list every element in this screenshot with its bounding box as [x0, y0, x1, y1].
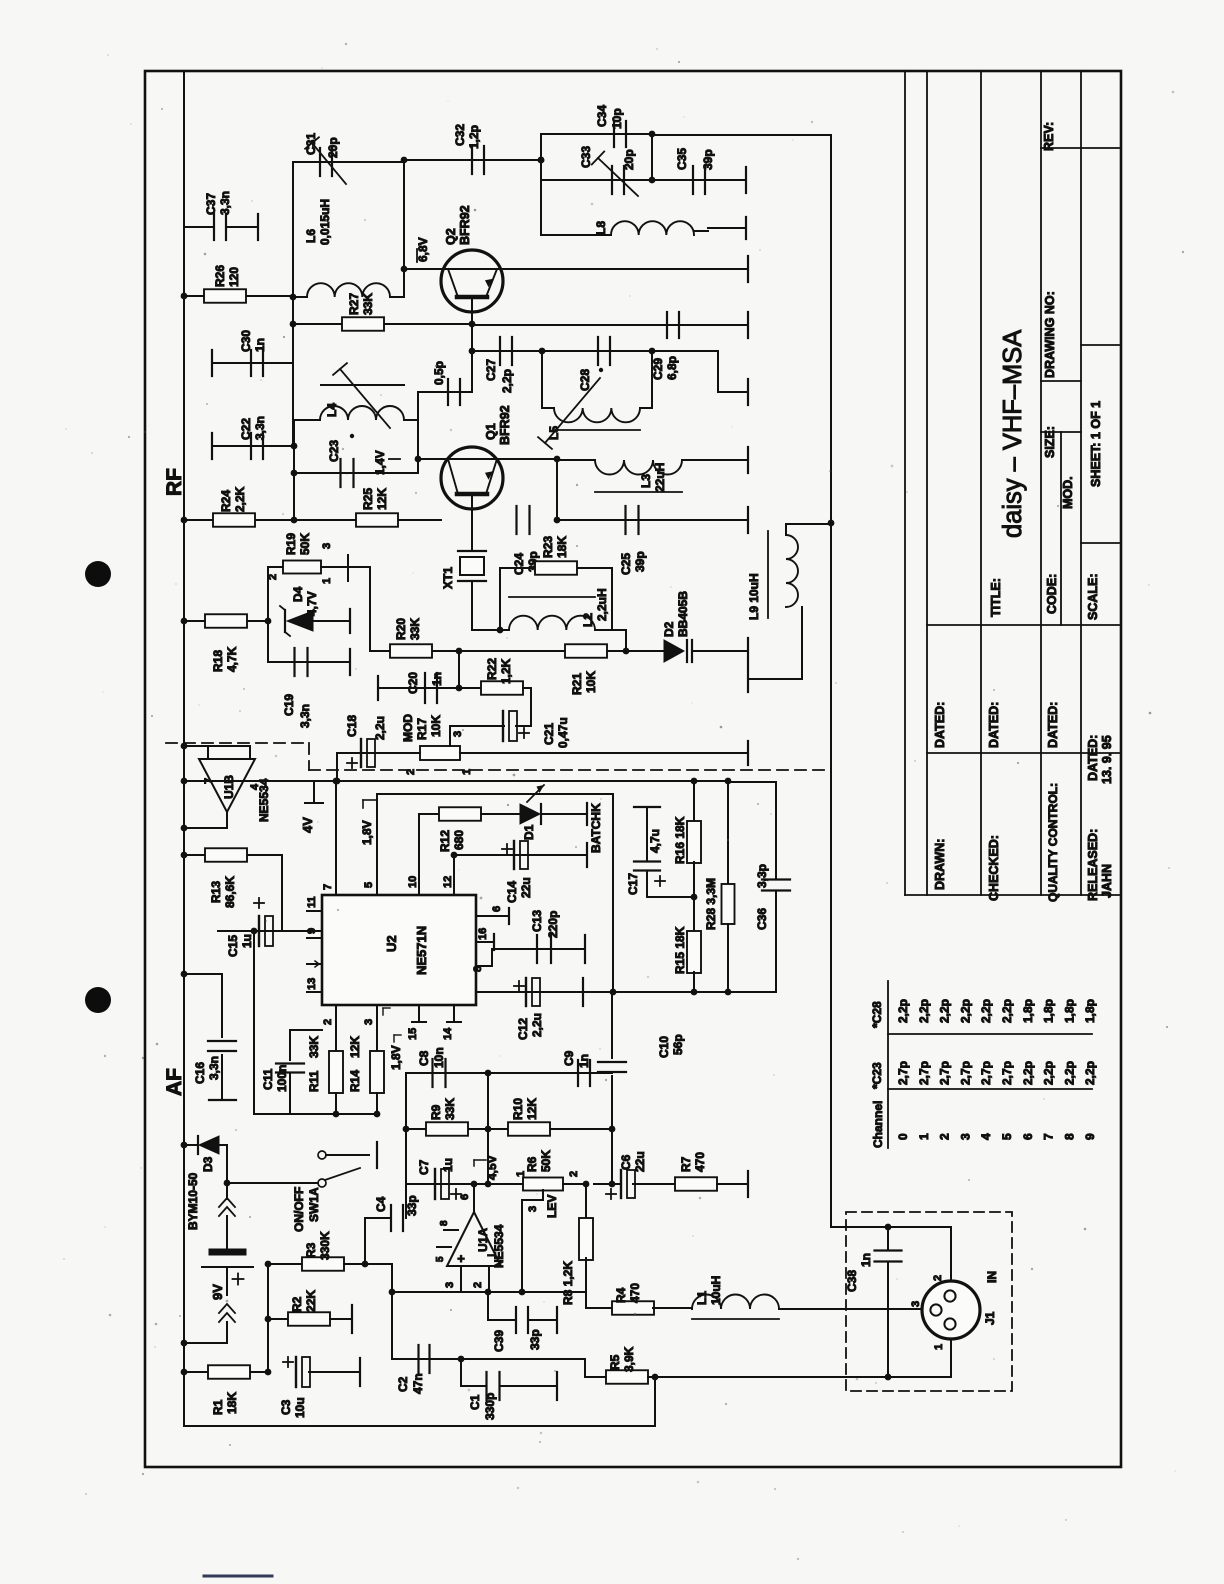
label 6,8V [416, 249, 418, 262]
svg-text:18K: 18K [555, 536, 569, 558]
svg-text:2,7p: 2,7p [958, 1061, 972, 1085]
svg-text:C10: C10 [657, 1036, 671, 1058]
svg-text:50K: 50K [298, 533, 312, 555]
wire C32 row [404, 159, 541, 161]
capacitor C12 [476, 991, 613, 993]
U2 pin15 [418, 1005, 420, 1022]
svg-text:10K: 10K [584, 671, 598, 693]
svg-text:C27: C27 [484, 359, 498, 381]
svg-text:BFR92: BFR92 [458, 205, 472, 245]
transistor Q1 [441, 447, 503, 509]
capacitor C16 [184, 973, 222, 975]
wire C8 col [487, 1073, 489, 1184]
svg-text:2: 2 [267, 574, 279, 580]
switch SW1A ON/OFF [224, 1180, 231, 1187]
wire R10-C10 col [611, 1129, 613, 1184]
svg-text:4,7K: 4,7K [225, 646, 239, 672]
U1A pin2 [488, 1266, 490, 1292]
svg-text:R24: R24 [219, 490, 233, 512]
svg-text:L3: L3 [639, 474, 653, 488]
resistor R28 [694, 780, 728, 782]
U2 pin16 [476, 941, 494, 943]
svg-text:DATED:: DATED: [1086, 735, 1100, 781]
variable capacitor C31 [319, 148, 321, 176]
op-amp U1A [447, 1212, 501, 1266]
svg-text:3,3n: 3,3n [253, 416, 267, 440]
resistor R27 [342, 317, 384, 331]
capacitor C11 [290, 1029, 322, 1031]
resistor R14 [370, 1051, 384, 1093]
capacitor C23 [294, 472, 418, 474]
capacitor C19 [268, 661, 350, 663]
svg-text:15: 15 [407, 1028, 419, 1040]
svg-text:1n: 1n [430, 672, 444, 686]
svg-text:1: 1 [515, 1171, 527, 1177]
svg-text:BFR92: BFR92 [498, 405, 512, 445]
svg-text:C7: C7 [417, 1159, 431, 1175]
border frame [145, 71, 1121, 1467]
svg-text:12K: 12K [348, 1036, 362, 1058]
svg-text:C30: C30 [239, 330, 253, 352]
svg-text:39p: 39p [633, 551, 647, 572]
svg-text:R9: R9 [429, 1104, 443, 1120]
svg-text:MOD.: MOD. [1061, 476, 1075, 509]
scan mark bottom-left [204, 1575, 272, 1578]
svg-text:0: 0 [896, 1133, 910, 1140]
inductor L6 [403, 160, 405, 269]
resistor R1 [184, 1371, 268, 1373]
dashed AF/RF boundary left [166, 742, 309, 744]
svg-text:R27: R27 [347, 293, 361, 315]
svg-text:R22: R22 [485, 658, 499, 680]
svg-text:TITLE:: TITLE: [989, 578, 1003, 617]
svg-text:2,7p: 2,7p [979, 1061, 993, 1085]
svg-text:C8: C8 [417, 1050, 431, 1066]
svg-text:BB405B: BB405B [676, 591, 690, 637]
svg-text:D2: D2 [662, 621, 676, 637]
wire C31 row [293, 161, 404, 163]
svg-text:AF: AF [163, 1068, 186, 1096]
svg-text:C32: C32 [453, 124, 467, 146]
resistor R20 [370, 650, 459, 652]
svg-text:220p: 220p [546, 911, 560, 938]
variable capacitor C28 [542, 350, 652, 352]
svg-text:R23: R23 [541, 536, 555, 558]
op-amp U1B [199, 759, 255, 812]
svg-text:12K: 12K [525, 1098, 539, 1120]
svg-text:7: 7 [1042, 1133, 1056, 1140]
label 4V [313, 781, 315, 803]
svg-text:6,8p: 6,8p [665, 356, 679, 380]
U2 left pins 11 9 4 13 [307, 910, 322, 912]
capacitor C38 [831, 1226, 951, 1228]
svg-text:REV:: REV: [1042, 122, 1056, 151]
svg-text:C35: C35 [675, 148, 689, 170]
svg-text:10u: 10u [293, 1397, 307, 1418]
capacitor C18 [337, 752, 404, 754]
capacitor C24 [515, 506, 517, 534]
svg-text:XT1: XT1 [441, 567, 455, 589]
svg-text:+: + [457, 1251, 465, 1266]
svg-text:3: 3 [452, 731, 464, 737]
capacitor C9 [488, 1072, 612, 1074]
wire C2 row to R5 [461, 1358, 585, 1360]
svg-text:3: 3 [910, 1301, 922, 1307]
svg-text:6: 6 [459, 1194, 471, 1200]
scan noise speckles [428, 253, 430, 255]
svg-text:33K: 33K [408, 618, 422, 640]
U2 pin6 [476, 915, 509, 917]
U2 pin5 / bias box wire [376, 794, 378, 895]
svg-text:470: 470 [693, 1152, 707, 1172]
svg-text:6: 6 [491, 906, 503, 912]
svg-text:C12: C12 [516, 1018, 530, 1040]
svg-text:12K: 12K [375, 488, 389, 510]
svg-text:R12: R12 [438, 830, 452, 852]
wire 0,5p row [418, 391, 472, 393]
variable capacitor C33 [541, 179, 652, 181]
resistor R8 [585, 1184, 587, 1219]
wire C27 row [471, 325, 473, 392]
svg-text:22u: 22u [633, 1151, 647, 1172]
wire +9V main bus [183, 72, 185, 1426]
potentiometer R6 LEV [474, 1183, 523, 1185]
svg-text:2,2p: 2,2p [917, 999, 931, 1023]
svg-text:BYM10-50: BYM10-50 [186, 1172, 200, 1230]
svg-text:1u: 1u [240, 934, 254, 948]
svg-text:56p: 56p [671, 1034, 685, 1055]
svg-text:R5: R5 [608, 1354, 622, 1370]
svg-text:daisy – VHF–MSA: daisy – VHF–MSA [999, 330, 1027, 538]
wire L4 right column [417, 392, 419, 473]
resistor R7 [675, 1177, 717, 1191]
svg-text:2,2p: 2,2p [979, 999, 993, 1023]
svg-text:0,015uH: 0,015uH [318, 199, 332, 245]
svg-text:*C28: *C28 [870, 1001, 884, 1028]
svg-text:CODE:: CODE: [1045, 574, 1059, 614]
svg-text:J1: J1 [983, 1311, 997, 1325]
inductor L2 [472, 629, 509, 631]
svg-text:2,2u: 2,2u [373, 716, 387, 740]
diode D3 [184, 1144, 198, 1146]
U2 pin12 [453, 855, 455, 895]
capacitor C6 [620, 1170, 622, 1198]
svg-text:11: 11 [306, 896, 318, 908]
XLR connector J1 [950, 1227, 952, 1281]
wire emitter bus right [472, 324, 748, 326]
punch hole top [85, 561, 111, 587]
svg-text:1,8p: 1,8p [1062, 999, 1076, 1023]
svg-text:5: 5 [363, 882, 375, 888]
inductor L5 [541, 351, 543, 408]
svg-text:R16 18K: R16 18K [673, 816, 687, 864]
svg-text:–: – [487, 1246, 495, 1262]
svg-text:2: 2 [322, 1019, 334, 1025]
battery 9V [226, 1145, 228, 1199]
wire R25 row [294, 519, 441, 521]
svg-text:3,9K: 3,9K [622, 1346, 636, 1372]
potentiometer R19 [267, 567, 269, 662]
U1A pins 8 5 [444, 1229, 458, 1231]
svg-text:1,8p: 1,8p [1021, 999, 1035, 1023]
capacitor C30 [250, 350, 252, 376]
resistor R21 [459, 650, 626, 652]
resistor R16 [693, 781, 695, 822]
svg-text:1,8V: 1,8V [389, 1045, 403, 1070]
wire U1A input row [392, 1291, 586, 1293]
zener D4 [284, 610, 286, 632]
wire 4V rail [184, 780, 336, 782]
svg-text:U1B: U1B [222, 775, 236, 799]
svg-text:10: 10 [407, 876, 419, 888]
svg-text:1: 1 [461, 769, 473, 775]
svg-text:1: 1 [321, 578, 333, 584]
svg-text:R18: R18 [211, 650, 225, 672]
svg-text:33p: 33p [528, 1329, 542, 1350]
wire Q1 collector [503, 458, 557, 460]
svg-text:47n: 47n [411, 1373, 425, 1394]
capacitor C2 [392, 1358, 461, 1360]
svg-text:U2: U2 [384, 935, 399, 952]
capacitor C35 [652, 179, 746, 181]
svg-text:9V: 9V [210, 1284, 225, 1300]
svg-text:C17: C17 [626, 873, 640, 895]
node antenna-L9 [828, 520, 835, 527]
svg-text:R10: R10 [511, 1098, 525, 1120]
svg-text:20p: 20p [326, 137, 340, 158]
inductor L8 [541, 234, 611, 236]
resistor R10 [488, 1128, 612, 1130]
svg-text:R6: R6 [525, 1156, 539, 1172]
svg-text:C6: C6 [619, 1154, 633, 1170]
U2 pin2 [335, 1005, 337, 1052]
svg-text:L8: L8 [594, 221, 608, 235]
svg-text:33p: 33p [405, 1195, 419, 1216]
svg-text:Q1: Q1 [484, 423, 498, 440]
resistor R2 [268, 1318, 289, 1320]
resistor R9 [406, 1128, 488, 1130]
wire R19-R20 column [369, 567, 371, 651]
svg-text:R15 18K: R15 18K [673, 926, 687, 974]
capacitor C20 [458, 651, 460, 688]
svg-text:2: 2 [568, 1171, 580, 1177]
wire Q1 base [418, 458, 441, 460]
svg-text:Channel: Channel [871, 1101, 885, 1148]
svg-text:22K: 22K [304, 1290, 318, 1312]
resistor R18 [205, 614, 247, 628]
svg-text:33K: 33K [443, 1098, 457, 1120]
svg-text:2,7p: 2,7p [1000, 1061, 1014, 1085]
svg-text:1u: 1u [441, 1158, 455, 1172]
svg-text:8: 8 [472, 966, 484, 972]
svg-text:2,2K: 2,2K [233, 486, 247, 512]
svg-text:33K: 33K [307, 1036, 321, 1058]
svg-text:2,2p: 2,2p [958, 999, 972, 1023]
svg-text:C25: C25 [619, 553, 633, 575]
svg-text:R8 1,2K: R8 1,2K [561, 1261, 575, 1305]
wire R18 row [184, 620, 268, 622]
capacitor C36 [728, 781, 776, 783]
svg-text:SIZE:: SIZE: [1043, 426, 1057, 458]
svg-text:C34: C34 [595, 105, 609, 127]
svg-text:ON/OFF: ON/OFF [292, 1187, 306, 1232]
svg-text:IN: IN [985, 1271, 999, 1283]
svg-text:R19: R19 [284, 533, 298, 555]
svg-text:2,2uH: 2,2uH [595, 588, 609, 621]
svg-text:1,8p: 1,8p [1083, 999, 1097, 1023]
svg-text:22u: 22u [519, 877, 533, 898]
svg-text:6,8V: 6,8V [416, 237, 430, 262]
svg-text:C3: C3 [279, 1399, 293, 1415]
svg-text:18K: 18K [225, 1392, 239, 1414]
U2 pin14 [453, 1005, 455, 1022]
svg-text:10K: 10K [429, 715, 443, 737]
svg-text:C1: C1 [468, 1394, 482, 1410]
svg-text:4,7u: 4,7u [648, 829, 662, 853]
capacitor C15 [281, 855, 283, 931]
svg-text:SW1A: SW1A [307, 1187, 321, 1222]
svg-text:100n: 100n [275, 1065, 289, 1092]
svg-text:3: 3 [321, 543, 333, 549]
capacitor C13 [476, 965, 492, 967]
svg-text:1,2K: 1,2K [499, 658, 513, 684]
svg-text:86,6K: 86,6K [223, 876, 237, 908]
svg-text:2,2p: 2,2p [1083, 1061, 1097, 1085]
resistor R11 [329, 1051, 343, 1093]
svg-text:2,2p: 2,2p [1062, 1061, 1076, 1085]
svg-text:DRAWING NO:: DRAWING NO: [1043, 291, 1057, 378]
dashed AF/RF boundary right [309, 769, 831, 771]
svg-text:D3: D3 [201, 1156, 215, 1172]
wire Q2 base row [404, 268, 442, 270]
svg-text:3: 3 [527, 1206, 539, 1212]
inductor L1 [692, 1295, 779, 1310]
svg-text:1: 1 [933, 1344, 945, 1350]
svg-text:C11: C11 [261, 1068, 275, 1090]
wire C28 to bar [652, 350, 718, 352]
svg-text:L2: L2 [581, 613, 595, 627]
svg-text:C39: C39 [492, 1330, 506, 1352]
svg-text:13. 9. 95: 13. 9. 95 [1100, 735, 1114, 784]
svg-text:2,7p: 2,7p [896, 1061, 910, 1085]
svg-text:2: 2 [405, 769, 417, 775]
svg-text:2: 2 [932, 1275, 944, 1281]
svg-text:1,8p: 1,8p [1042, 999, 1056, 1023]
capacitor C39 [487, 1292, 489, 1320]
wire R24 row [184, 519, 294, 521]
wire Q2 collector [503, 268, 748, 270]
capacitor C8 [405, 1073, 407, 1184]
svg-text:C20: C20 [406, 672, 420, 694]
svg-text:C38: C38 [845, 1270, 859, 1292]
svg-text:R11: R11 [307, 1070, 321, 1092]
svg-text:16: 16 [477, 928, 489, 940]
svg-text:R25: R25 [361, 488, 375, 510]
svg-text:6: 6 [1021, 1133, 1035, 1140]
capacitor C7 [406, 1183, 474, 1185]
inductor L3 [557, 459, 595, 461]
svg-text:R28 3,3M: R28 3,3M [704, 878, 718, 930]
svg-text:BATCHK: BATCHK [589, 803, 603, 853]
wire R3 column [391, 1264, 393, 1359]
label 4,5V [471, 1181, 478, 1188]
resistor R22 [459, 687, 481, 689]
wire L3 col [556, 459, 558, 520]
wire R1 column [267, 1264, 269, 1372]
capacitor C14 [451, 852, 458, 859]
svg-text:1,2p: 1,2p [467, 125, 481, 149]
potentiometer R17 MOD [420, 746, 460, 760]
svg-text:NE5534: NE5534 [257, 778, 271, 822]
svg-text:R2: R2 [290, 1296, 304, 1312]
resistor R4 [586, 1307, 613, 1309]
svg-text:10uH: 10uH [709, 1276, 723, 1305]
svg-text:0,5p: 0,5p [432, 361, 446, 385]
svg-text:R1: R1 [211, 1399, 225, 1415]
svg-text:3,3n: 3,3n [207, 1056, 221, 1080]
capacitor C34 [541, 133, 652, 135]
svg-text:2,2p: 2,2p [938, 999, 952, 1023]
resistor R26 [204, 289, 246, 303]
wire bottom rail [184, 1425, 655, 1427]
svg-text:4V: 4V [300, 817, 315, 833]
svg-text:1n: 1n [859, 1253, 873, 1267]
svg-text:3: 3 [363, 1019, 375, 1025]
crystal XT1 [471, 520, 473, 551]
resistor R5 [585, 1376, 606, 1378]
title block grid [904, 72, 906, 895]
svg-text:SHEET: 1 OF 1: SHEET: 1 OF 1 [1089, 401, 1103, 487]
svg-text:120: 120 [227, 267, 241, 287]
capacitor C4 [364, 1218, 366, 1264]
svg-text:L4: L4 [325, 403, 339, 417]
U1A pin3 [460, 1266, 462, 1292]
svg-text:C29: C29 [651, 358, 665, 380]
resistor R3 [268, 1263, 303, 1265]
svg-text:C16: C16 [193, 1062, 207, 1084]
svg-text:2,2p: 2,2p [1021, 1061, 1035, 1085]
svg-text:D4: D4 [291, 586, 305, 602]
svg-text:C4: C4 [374, 1196, 388, 1212]
svg-text:D1: D1 [522, 824, 536, 840]
svg-text:R26: R26 [213, 265, 227, 287]
capacitor C21 [450, 725, 504, 727]
svg-text:3: 3 [958, 1133, 972, 1140]
svg-text:330K: 330K [318, 1231, 332, 1260]
capacitor C29 [666, 312, 668, 338]
svg-text:2: 2 [472, 1282, 484, 1288]
svg-text:C18: C18 [345, 715, 359, 737]
svg-text:R21: R21 [570, 673, 584, 695]
svg-text:C19: C19 [282, 694, 296, 716]
channel table rules [887, 981, 889, 1148]
svg-text:1,8V: 1,8V [360, 820, 374, 845]
inductor L4 tank [293, 420, 295, 520]
wire R27/emitter row [293, 323, 472, 325]
capacitor C10 [611, 992, 613, 1058]
svg-text:SCALE:: SCALE: [1086, 573, 1100, 620]
svg-text:L9 10uH: L9 10uH [747, 573, 761, 620]
C33/C34 block frame [540, 134, 542, 235]
svg-text:RF: RF [163, 468, 186, 496]
resistor R13 [184, 854, 282, 856]
svg-text:MOD: MOD [401, 714, 415, 742]
svg-text:39p: 39p [701, 149, 715, 170]
XLR shield box [846, 1212, 1012, 1391]
svg-text:0,47u: 0,47u [556, 717, 570, 748]
svg-text:L5: L5 [547, 426, 561, 440]
svg-text:1: 1 [917, 1133, 931, 1140]
